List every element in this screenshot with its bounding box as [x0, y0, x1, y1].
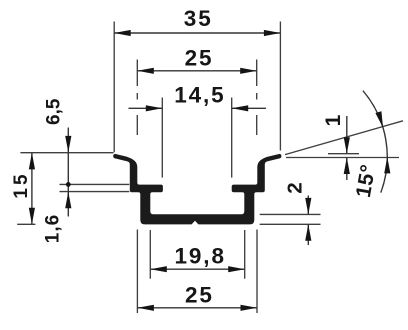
svg-text:1: 1 [322, 114, 345, 126]
svg-text:15: 15 [11, 171, 32, 198]
svg-text:1,6: 1,6 [43, 214, 64, 243]
svg-text:6,5: 6,5 [44, 98, 65, 125]
svg-text:25: 25 [185, 282, 214, 307]
svg-text:35: 35 [184, 6, 213, 31]
svg-text:14,5: 14,5 [174, 82, 225, 107]
svg-text:2: 2 [283, 182, 306, 193]
svg-text:25: 25 [185, 46, 214, 71]
svg-text:19,8: 19,8 [174, 243, 225, 268]
